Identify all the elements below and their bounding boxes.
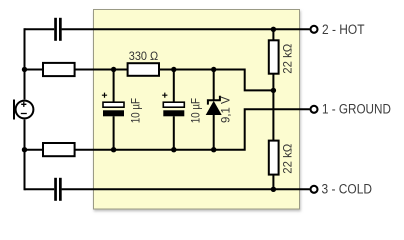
svg-text:1 - GROUND: 1 - GROUND	[322, 102, 391, 117]
svg-text:22 kΩ: 22 kΩ	[280, 144, 294, 174]
svg-text:10 µF: 10 µF	[128, 98, 142, 123]
svg-text:22 kΩ: 22 kΩ	[280, 44, 294, 74]
svg-text:330 Ω: 330 Ω	[129, 49, 158, 63]
svg-text:2 - HOT: 2 - HOT	[322, 22, 365, 37]
svg-text:10 µF: 10 µF	[188, 98, 202, 123]
svg-text:3 - COLD: 3 - COLD	[322, 182, 373, 197]
svg-text:9,1 V: 9,1 V	[219, 96, 233, 123]
